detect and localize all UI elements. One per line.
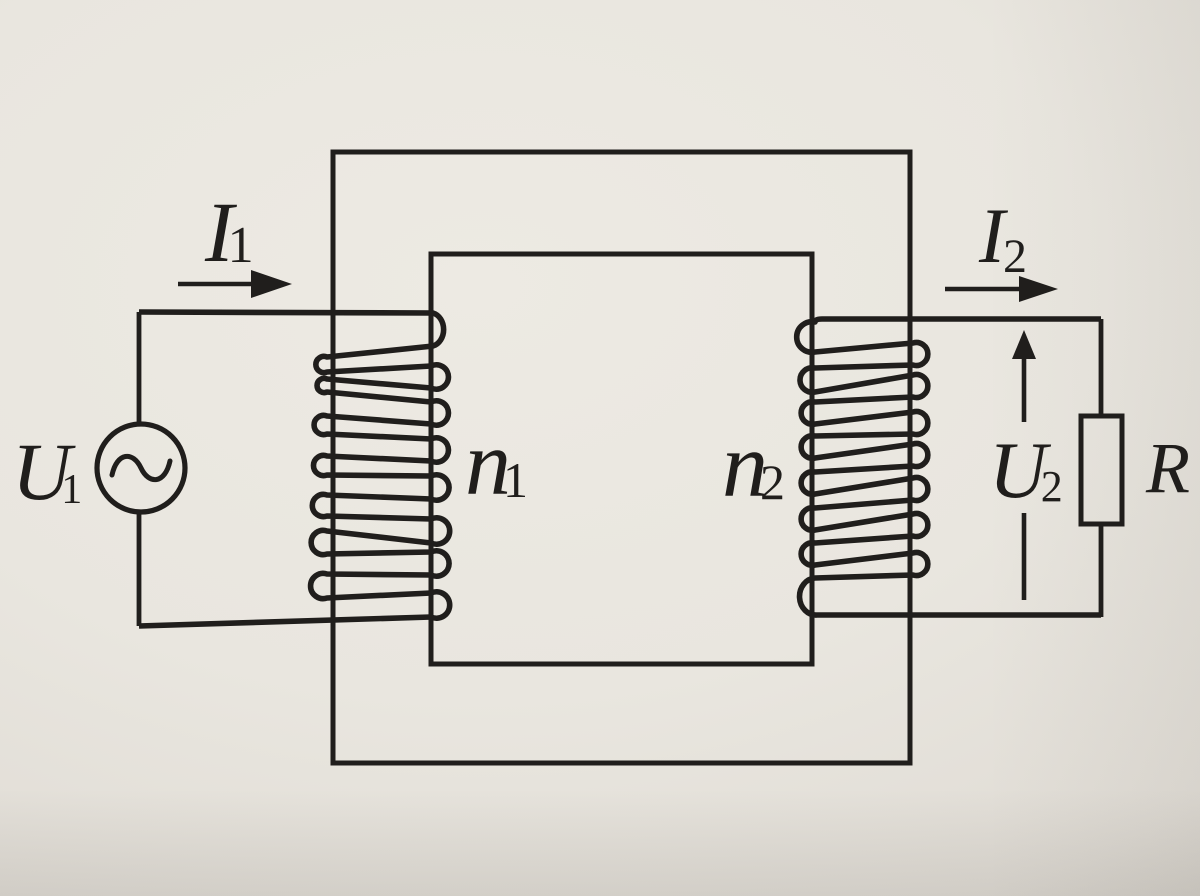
- wire right vertical top to resistor: [1099, 319, 1104, 416]
- svg-text:I2: I2: [978, 192, 1027, 283]
- current arrow I1: [178, 270, 292, 298]
- voltage arrow U2 lower segment: [1022, 513, 1027, 600]
- AC source sine symbol: [112, 456, 170, 479]
- svg-text:n2: n2: [722, 414, 785, 516]
- voltage arrow U2 upper part with head: [1012, 330, 1036, 422]
- svg-text:R: R: [1145, 428, 1190, 508]
- svg-text:U1: U1: [12, 426, 82, 517]
- transformer core inner window rectangle: [431, 254, 812, 664]
- wire bottom-left from source to primary winding: [137, 512, 142, 626]
- svg-text:n1: n1: [465, 412, 528, 514]
- transformer core outer rectangle: [333, 152, 910, 763]
- secondary winding coil n2: [797, 319, 1101, 615]
- AC source U1 circle: [97, 424, 185, 512]
- svg-text:I1: I1: [204, 184, 254, 280]
- wire right vertical bottom from resistor: [1099, 524, 1104, 617]
- wire top-left from primary winding to source: [137, 312, 142, 424]
- current arrow I2: [945, 276, 1058, 302]
- primary winding coil n1: [139, 312, 450, 626]
- resistor R body: [1081, 416, 1122, 524]
- svg-text:U2: U2: [989, 427, 1063, 515]
